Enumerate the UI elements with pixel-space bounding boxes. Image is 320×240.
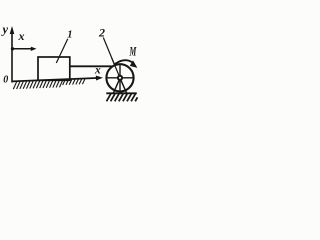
ground surface line doubling as x axis xyxy=(12,78,97,81)
wheel spoke horizontal xyxy=(108,77,133,79)
y-axis xyxy=(11,29,13,83)
wheel spoke vertical xyxy=(119,65,121,90)
x displacement arrow line xyxy=(13,48,33,50)
block 1 (cart body) xyxy=(38,57,70,80)
moment M arc xyxy=(115,60,134,64)
support ground hatching xyxy=(107,94,138,102)
node: origin dot of x displacement arrow xyxy=(11,47,14,50)
rod from block to wheel xyxy=(70,65,112,67)
left ground group (slightly tilted up to the right) xyxy=(12,75,103,89)
support leg right xyxy=(121,80,127,94)
moment M arrowhead xyxy=(130,60,138,68)
leader line of label 1 xyxy=(56,39,68,63)
wheel 2: outer rim xyxy=(106,64,133,91)
svg-text:2: 2 xyxy=(98,26,105,40)
svg-text:0: 0 xyxy=(3,75,8,86)
leader line of label 2 xyxy=(103,38,119,76)
svg-text:x: x xyxy=(18,29,25,43)
support leg left xyxy=(113,80,119,94)
svg-text:1: 1 xyxy=(67,30,72,41)
ground hatching left xyxy=(13,79,85,89)
wheel hub xyxy=(117,75,123,81)
support ground line xyxy=(106,92,137,94)
x displacement arrowhead xyxy=(31,47,37,51)
leader line of label 2 inside wheel xyxy=(112,59,119,76)
svg-text:x: x xyxy=(94,65,101,77)
svg-text:y: y xyxy=(1,23,9,37)
svg-text:M: M xyxy=(129,44,137,59)
x-axis arrowhead xyxy=(96,75,103,80)
y-axis arrowhead xyxy=(10,26,15,34)
